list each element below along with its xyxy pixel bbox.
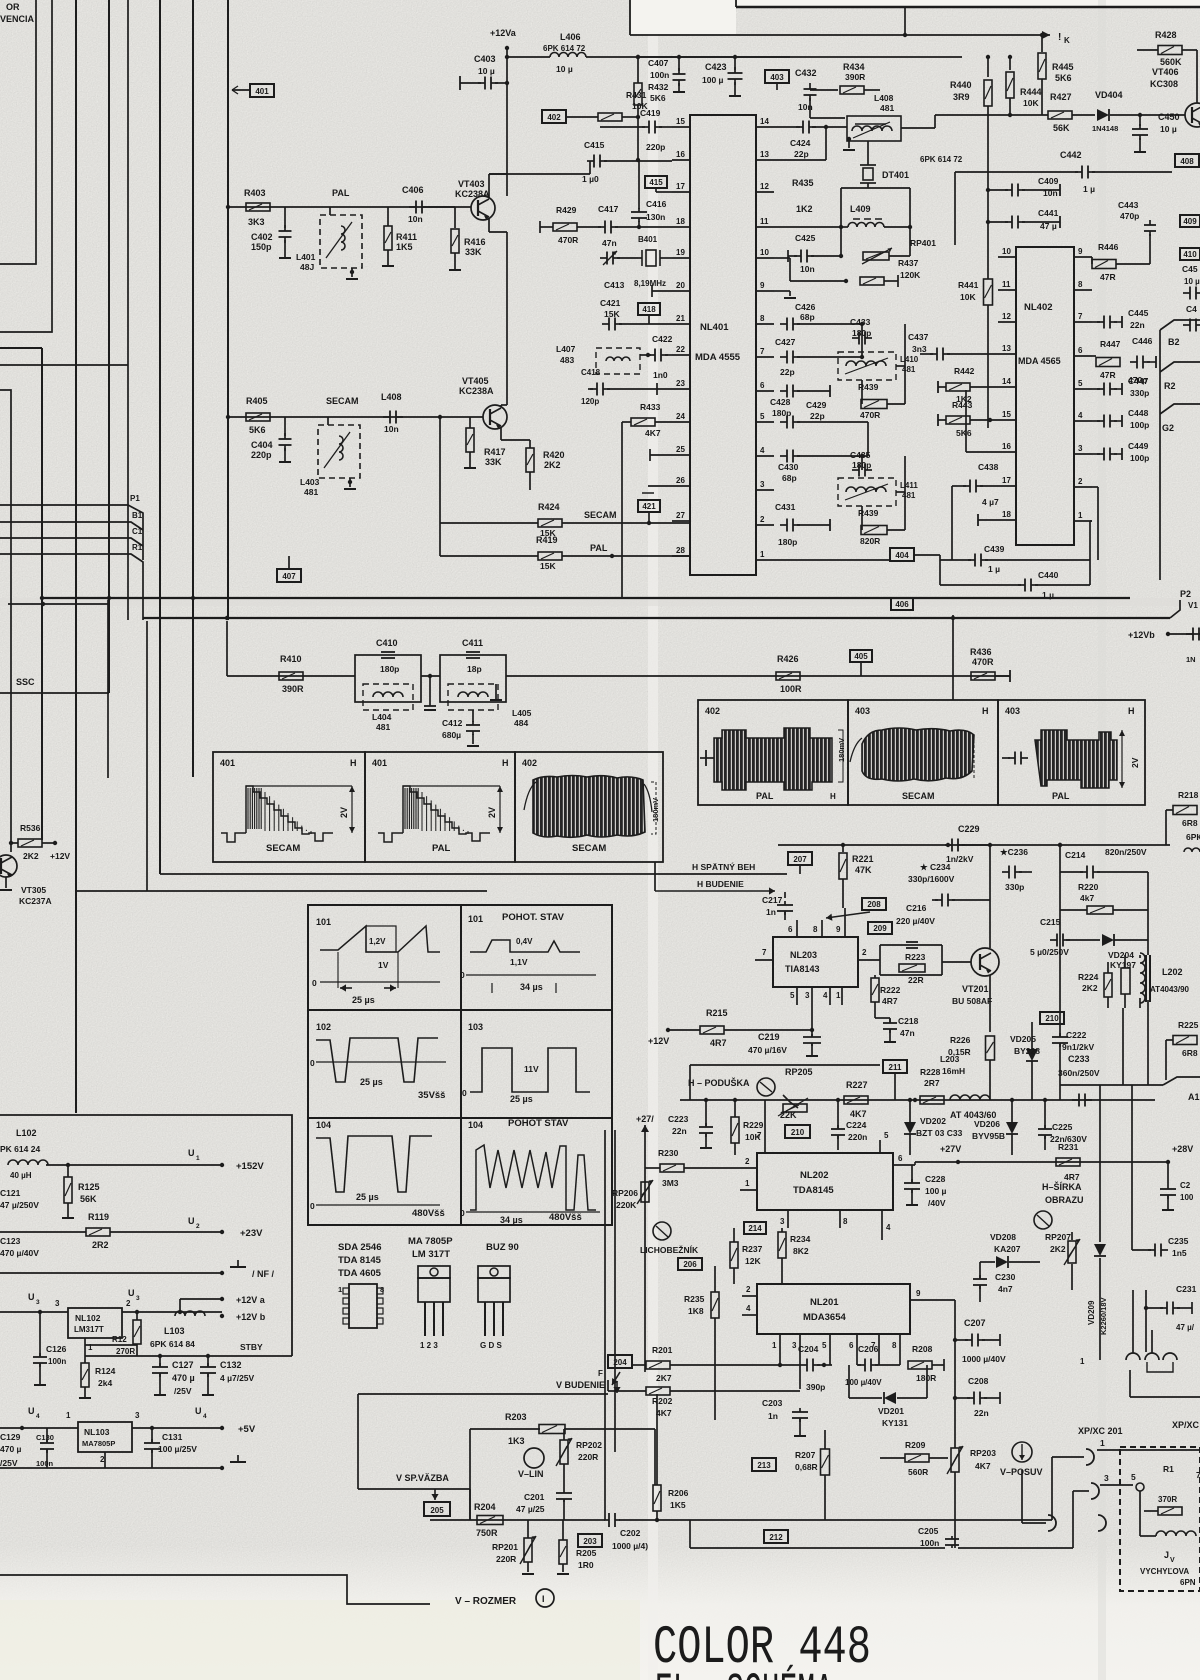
svg-text:213: 213	[757, 1461, 771, 1470]
resistor R441 10K	[984, 279, 993, 305]
svg-text:180mV: 180mV	[837, 738, 846, 762]
svg-text:C225: C225	[1052, 1122, 1073, 1132]
svg-text:+12V: +12V	[50, 851, 70, 861]
capacitor C417 47n	[598, 226, 605, 228]
node +23V	[220, 1230, 224, 1234]
svg-text:4: 4	[1078, 411, 1083, 420]
svg-text:12: 12	[760, 182, 769, 191]
svg-text:3n3: 3n3	[912, 344, 927, 354]
svg-text:211: 211	[889, 1063, 902, 1072]
svg-text:+23V: +23V	[240, 1228, 263, 1239]
svg-text:0,4V: 0,4V	[516, 937, 533, 946]
svg-text:22n: 22n	[974, 1408, 989, 1418]
svg-text:PAL: PAL	[590, 543, 608, 553]
svg-text:22: 22	[676, 345, 685, 354]
resistor R436 470R	[971, 672, 995, 680]
svg-text:409: 409	[1183, 217, 1197, 226]
svg-text:4R7: 4R7	[710, 1038, 727, 1048]
svg-text:R446: R446	[1098, 242, 1119, 252]
svg-text:5: 5	[760, 412, 765, 421]
wire pin18 stub	[978, 519, 998, 521]
capacitor C430 68p pin4	[780, 455, 787, 457]
svg-text:VD209: VD209	[1087, 1300, 1096, 1325]
svg-text:4K7: 4K7	[656, 1408, 672, 1418]
pin 6 NL201	[856, 1334, 858, 1365]
svg-text:403: 403	[1005, 706, 1020, 716]
svg-text:100: 100	[1180, 1193, 1194, 1202]
svg-text:G2: G2	[1162, 423, 1174, 433]
svg-text:C121: C121	[0, 1188, 21, 1198]
interconnect box 206	[678, 1258, 702, 1270]
svg-text:C206: C206	[858, 1344, 879, 1354]
svg-text:47 µ/25: 47 µ/25	[516, 1504, 545, 1514]
svg-text:2K2: 2K2	[1082, 983, 1098, 993]
svg-text:100n: 100n	[36, 1459, 54, 1468]
connector XP dashed box	[1120, 1447, 1200, 1591]
interconnect box 212	[764, 1530, 788, 1543]
svg-text:SECAM: SECAM	[902, 791, 935, 801]
svg-text:9: 9	[760, 281, 765, 290]
svg-text:212: 212	[769, 1533, 783, 1542]
capacitor C228 100u/40V	[911, 1179, 913, 1183]
capacitor C402	[284, 207, 286, 228]
wire V-POSUV to arc	[1021, 1470, 1023, 1523]
connector pin 3 arc	[1091, 1483, 1099, 1499]
svg-text:C428: C428	[770, 397, 791, 407]
resistor R203 1K3	[539, 1425, 565, 1434]
svg-text:480Všš: 480Všš	[412, 1208, 445, 1219]
interconnect box 204	[608, 1355, 632, 1368]
svg-text:220R: 220R	[578, 1452, 598, 1462]
svg-text:3R9: 3R9	[953, 92, 970, 102]
svg-text:/25V: /25V	[174, 1386, 192, 1396]
svg-text:SECAM: SECAM	[266, 843, 300, 854]
svg-text:R223: R223	[905, 952, 926, 962]
resistor R201 2K7	[632, 1364, 646, 1366]
svg-text:C429: C429	[806, 400, 827, 410]
ground stub L405	[495, 684, 497, 700]
pin 9 NL201	[910, 1299, 935, 1301]
svg-text:VD202: VD202	[920, 1116, 946, 1126]
svg-text:7: 7	[762, 948, 767, 957]
svg-text:NL102: NL102	[75, 1313, 101, 1323]
svg-text:C402: C402	[251, 232, 273, 242]
svg-text:4: 4	[203, 1413, 207, 1420]
svg-text:SECAM: SECAM	[584, 510, 617, 520]
svg-text:+27/: +27/	[636, 1114, 654, 1124]
svg-text:C411: C411	[462, 638, 483, 648]
junction dot wire1 x109	[107, 596, 111, 600]
transistor VT305 KC237A	[0, 855, 17, 877]
svg-text:+12Vb: +12Vb	[1128, 630, 1155, 640]
resistor R437 120K	[860, 277, 884, 285]
wire pin2 long down	[1092, 486, 1098, 488]
pin 7 NL201	[878, 1334, 880, 1365]
svg-text:120K: 120K	[900, 270, 921, 280]
svg-text:10 µ: 10 µ	[1160, 124, 1177, 134]
svg-text:R440: R440	[950, 80, 972, 90]
waveform box 403 SECAM burst	[848, 700, 998, 805]
node P1 wire	[0, 505, 143, 560]
svg-text:5: 5	[884, 1131, 889, 1140]
svg-text:C203: C203	[762, 1398, 783, 1408]
pin 3 NL402 right	[1074, 453, 1092, 455]
svg-text:★C236: ★C236	[1000, 847, 1028, 857]
svg-text:100n: 100n	[650, 70, 669, 80]
connector pin 1 arc	[1086, 1449, 1094, 1465]
crystal DT401	[867, 141, 869, 165]
resistor R447 47R and C446	[1092, 355, 1096, 357]
inductor L403 481 dashed	[318, 425, 360, 478]
svg-text:10n: 10n	[800, 264, 815, 274]
connector inner pin 5	[1136, 1483, 1144, 1491]
svg-text:C231: C231	[1176, 1284, 1197, 1294]
svg-text:C129: C129	[0, 1432, 21, 1442]
capacitor C222 9n1/2kV	[1059, 1033, 1061, 1037]
svg-text:EL. SCHÉMA: EL. SCHÉMA	[655, 1664, 833, 1680]
svg-text:5K6: 5K6	[956, 428, 972, 438]
svg-text:TDA 8145: TDA 8145	[338, 1255, 382, 1266]
svg-text:C433: C433	[850, 317, 871, 327]
wire y1397 right	[1129, 1370, 1131, 1397]
capacitor C127 470u/25V	[159, 1363, 161, 1367]
svg-text:103: 103	[468, 1022, 483, 1032]
svg-text:330p: 330p	[1130, 388, 1149, 398]
svg-text:6: 6	[788, 925, 793, 934]
svg-text:17: 17	[1002, 476, 1011, 485]
svg-text:2K2: 2K2	[23, 851, 39, 861]
wire NL102 adj	[84, 1338, 86, 1345]
wire bus vertical x36	[0, 0, 36, 264]
wire ground row y1468	[0, 1467, 222, 1469]
svg-text:560K: 560K	[1160, 57, 1182, 67]
svg-text:C233: C233	[1068, 1054, 1090, 1064]
wire y845 long	[778, 844, 1170, 846]
pin 11 NL402	[998, 289, 1016, 291]
svg-text:C222: C222	[1066, 1030, 1087, 1040]
waveform box 402 SECAM burst	[515, 752, 663, 862]
resistor R222 4R7	[871, 978, 879, 1002]
svg-text:R201: R201	[652, 1345, 673, 1355]
pin 9 NL401 right	[756, 290, 774, 292]
svg-text:A1: A1	[1188, 1092, 1200, 1102]
svg-text:25 µs: 25 µs	[360, 1077, 383, 1087]
svg-text:KC237A: KC237A	[19, 896, 52, 906]
pin 14 NL401 right	[756, 126, 774, 128]
pin 13 NL402	[998, 353, 1016, 355]
capacitor C406	[409, 206, 416, 208]
pin 2 NL201	[742, 1295, 757, 1297]
svg-text:15: 15	[1002, 410, 1011, 419]
svg-text:C130: C130	[36, 1433, 54, 1442]
svg-text:16mH: 16mH	[942, 1066, 965, 1076]
wire top edge y7 thick	[736, 6, 1200, 9]
svg-text:402: 402	[522, 758, 537, 768]
svg-text:R207: R207	[795, 1450, 816, 1460]
svg-text:1V: 1V	[378, 960, 389, 970]
svg-text:C403: C403	[474, 54, 496, 64]
node +5V	[220, 1426, 224, 1430]
filter C435 L411	[852, 469, 859, 471]
svg-text:6PК: 6PК	[1186, 832, 1200, 842]
svg-text:C407: C407	[648, 58, 669, 68]
resistor R432 5K6	[634, 83, 642, 105]
capacitor L408 10n	[383, 416, 390, 418]
wire main y1100	[680, 1099, 1155, 1101]
pin 12 NL401 right	[756, 191, 774, 193]
svg-text:SDA 2546: SDA 2546	[338, 1242, 381, 1253]
svg-text:10: 10	[1002, 247, 1011, 256]
inductor L406	[507, 56, 550, 58]
svg-text:23: 23	[676, 379, 685, 388]
svg-text:100R: 100R	[780, 684, 802, 694]
svg-text:B401: B401	[638, 235, 658, 244]
svg-text:R436: R436	[970, 647, 992, 657]
svg-text:1K5: 1K5	[396, 242, 413, 252]
svg-text:220p: 220p	[251, 450, 272, 460]
svg-text:C216: C216	[906, 903, 927, 913]
capacitor C131 100u/25V	[151, 1439, 153, 1443]
wire y57 horizontal	[640, 56, 962, 58]
svg-text:68p: 68p	[800, 312, 815, 322]
resistor R226 0.15R	[986, 1036, 995, 1060]
waveform box 402 PAL burst	[698, 700, 848, 805]
svg-text:402: 402	[705, 706, 720, 716]
diode VD206 BYV95B	[1006, 1122, 1018, 1134]
wire pin16 loop	[966, 451, 998, 453]
resistor R442 1K2	[938, 386, 946, 388]
capacitor C202 1000u/40	[604, 1519, 609, 1521]
svg-text:1N: 1N	[1186, 655, 1196, 664]
diode VD201 KY131	[884, 1392, 896, 1404]
capacitor C132 4u7/25V	[207, 1363, 209, 1367]
svg-text:C409: C409	[1038, 176, 1059, 186]
svg-text:+152V: +152V	[236, 1161, 264, 1172]
svg-text:R209: R209	[905, 1440, 926, 1450]
svg-text:H: H	[350, 758, 357, 768]
svg-text:C215: C215	[1040, 917, 1061, 927]
svg-text:C45: C45	[1182, 264, 1198, 274]
interconnect box 213	[752, 1458, 776, 1471]
svg-text:SECAM: SECAM	[326, 396, 359, 406]
wire pin9 down x955	[935, 1299, 955, 1301]
svg-text:4 µ7/25V: 4 µ7/25V	[220, 1373, 255, 1383]
svg-text:6PK 614 84: 6PK 614 84	[150, 1339, 195, 1349]
svg-text:4K7: 4K7	[850, 1109, 867, 1119]
capacitor C419 220p	[642, 126, 649, 128]
wire x440 vertical	[439, 417, 441, 556]
svg-text:5K6: 5K6	[249, 425, 266, 435]
crystal B401	[646, 250, 656, 266]
wire R215 +12V	[666, 1028, 670, 1032]
svg-text:C204: C204	[798, 1344, 819, 1354]
svg-text:KC308: KC308	[1150, 79, 1178, 89]
svg-text:0: 0	[460, 970, 465, 980]
svg-text:28: 28	[676, 546, 685, 555]
svg-text:48J: 48J	[300, 262, 314, 272]
svg-text:22n: 22n	[672, 1126, 687, 1136]
svg-text:4: 4	[823, 991, 828, 1000]
svg-text:RP401: RP401	[910, 238, 936, 248]
svg-text:410: 410	[1183, 250, 1197, 259]
svg-text:208: 208	[867, 900, 881, 909]
svg-text:R234: R234	[790, 1234, 811, 1244]
svg-text:100p: 100p	[1130, 420, 1149, 430]
potentiometer RP203 4K7	[951, 1448, 959, 1472]
resistor R228 2R7	[920, 1096, 944, 1104]
svg-text:R1: R1	[1163, 1464, 1174, 1474]
svg-text:13: 13	[1002, 344, 1011, 353]
svg-text:207: 207	[793, 855, 807, 864]
svg-text:VT305: VT305	[21, 885, 46, 895]
svg-text:680µ: 680µ	[442, 730, 461, 740]
svg-text:220p: 220p	[646, 142, 665, 152]
svg-text:C430: C430	[778, 462, 799, 472]
pin 19 NL401	[672, 257, 690, 259]
svg-text:R227: R227	[846, 1080, 868, 1090]
interconnect box 402	[542, 110, 566, 123]
svg-text:1 µ: 1 µ	[1042, 590, 1054, 600]
svg-text:3: 3	[1078, 444, 1083, 453]
pin 8 NL202	[839, 1210, 841, 1228]
pin 17 NL401	[672, 191, 690, 193]
svg-text:47n: 47n	[602, 238, 617, 248]
svg-text:390R: 390R	[282, 684, 304, 694]
capacitor C404	[284, 417, 286, 436]
svg-text:AT4043/90: AT4043/90	[1150, 985, 1190, 994]
svg-text:820R: 820R	[860, 536, 880, 546]
svg-text:V BUDENIE: V BUDENIE	[556, 1380, 605, 1390]
IC NL102 LM317T	[68, 1308, 122, 1338]
svg-text:C217: C217	[762, 895, 783, 905]
pin 6 NL203	[796, 920, 798, 937]
potentiometer RP201 220R	[524, 1538, 532, 1562]
pin 27 NL401	[672, 520, 690, 522]
pin 8 NL201	[899, 1334, 901, 1365]
wire long horizontal y618	[143, 617, 1170, 619]
pin 3 NL401 right	[756, 489, 774, 491]
svg-text:L403: L403	[300, 477, 320, 487]
node V-LIN	[524, 1448, 544, 1468]
svg-text:TIA8143: TIA8143	[785, 964, 820, 974]
svg-text:100n: 100n	[48, 1357, 66, 1366]
capacitor C449 100p	[1092, 453, 1100, 455]
svg-text:470 µ/16V: 470 µ/16V	[748, 1045, 787, 1055]
capacitor C208 22p	[953, 1396, 957, 1400]
pin 13 NL401 right	[756, 159, 774, 161]
svg-text:11: 11	[760, 217, 769, 226]
wire bus vertical x193	[192, 0, 194, 777]
svg-text:4 µ7: 4 µ7	[982, 497, 999, 507]
svg-text:0,68R: 0,68R	[795, 1462, 818, 1472]
interconnect box 210b	[1040, 1012, 1064, 1024]
svg-text:2V: 2V	[339, 807, 349, 818]
svg-text:10n: 10n	[408, 214, 423, 224]
pin26 stub	[648, 485, 672, 487]
svg-text:R224: R224	[1078, 972, 1099, 982]
svg-text:47K: 47K	[855, 865, 872, 875]
svg-text:18: 18	[1002, 510, 1011, 519]
wire pin28 PAL	[610, 554, 614, 558]
svg-text:210: 210	[1045, 1014, 1059, 1023]
wire y172 C442	[955, 171, 1078, 173]
pin 1 NL201	[779, 1334, 781, 1365]
wire x1100 vertical lower	[1099, 1085, 1101, 1242]
capacitor C205 100n	[951, 1536, 953, 1539]
resistor R205 1R0	[559, 1540, 567, 1564]
wire left loop x358	[357, 1394, 359, 1489]
svg-text:104: 104	[316, 1120, 331, 1130]
svg-text:H: H	[982, 706, 989, 716]
IC NL203 TDA8143	[773, 937, 858, 987]
ground stub L404	[429, 676, 431, 706]
wire x1132 vertical lower	[1131, 1085, 1133, 1250]
capacitor C442 1u	[1075, 171, 1082, 173]
svg-text:R235: R235	[684, 1294, 705, 1304]
svg-text:9: 9	[836, 925, 841, 934]
svg-text:I: I	[542, 1594, 545, 1604]
svg-text:403: 403	[855, 706, 870, 716]
svg-text:PAL: PAL	[432, 843, 450, 854]
svg-text:5: 5	[790, 991, 795, 1000]
svg-text:C205: C205	[918, 1526, 939, 1536]
interconnect box 208	[862, 898, 886, 910]
svg-text:2V: 2V	[487, 807, 497, 818]
capacitor C206 100u/40V	[858, 1364, 865, 1366]
svg-text:25 µs: 25 µs	[356, 1192, 379, 1202]
svg-text:1: 1	[760, 550, 765, 559]
capacitor C415 1u	[489, 173, 590, 175]
svg-text:PAL: PAL	[1052, 791, 1070, 801]
svg-text:NL103: NL103	[84, 1427, 110, 1437]
svg-text:8: 8	[813, 925, 818, 934]
svg-text:2k4: 2k4	[98, 1378, 112, 1388]
svg-text:6PK 614 72: 6PK 614 72	[920, 155, 963, 164]
resistor R446 47R	[1092, 260, 1116, 269]
wire pin1 long	[774, 559, 890, 561]
svg-text:203: 203	[583, 1537, 597, 1546]
svg-text:VD201: VD201	[878, 1406, 904, 1416]
svg-text:H BUDENIE: H BUDENIE	[697, 879, 744, 889]
wire NL102 out	[122, 1311, 222, 1313]
svg-text:SECAM: SECAM	[572, 843, 606, 854]
svg-text:V SP.VÄZBA: V SP.VÄZBA	[396, 1473, 449, 1483]
TO220 package 2	[478, 1266, 510, 1278]
svg-text:L404: L404	[372, 712, 392, 722]
svg-text:10 µ: 10 µ	[556, 64, 573, 74]
svg-text:1n: 1n	[768, 1411, 778, 1421]
svg-text:25 µs: 25 µs	[510, 1094, 533, 1104]
capacitor C130 100n	[46, 1439, 48, 1443]
svg-text:130n: 130n	[646, 212, 665, 222]
svg-text:RP206: RP206	[612, 1188, 638, 1198]
svg-text:6: 6	[849, 1341, 854, 1350]
svg-text:PK 614 24: PK 614 24	[0, 1144, 40, 1154]
svg-text:C4: C4	[1186, 304, 1197, 314]
resistor R445 5K6	[1041, 35, 1043, 52]
svg-text:VT406: VT406	[1152, 67, 1179, 77]
wire bus vertical x52	[0, 0, 52, 332]
svg-text:101: 101	[468, 914, 483, 924]
svg-text:H SPÄTNÝ BEH: H SPÄTNÝ BEH	[692, 861, 755, 872]
svg-text:220 µ/40V: 220 µ/40V	[896, 916, 935, 926]
pin 5 NL402 right	[1074, 388, 1092, 390]
svg-text:470p: 470p	[1120, 211, 1139, 221]
pin 1 NL401 right	[756, 559, 774, 561]
svg-text:!: !	[1058, 32, 1061, 43]
capacitor C411 18p block	[440, 655, 506, 702]
interconnect box at V SP	[434, 1489, 436, 1500]
